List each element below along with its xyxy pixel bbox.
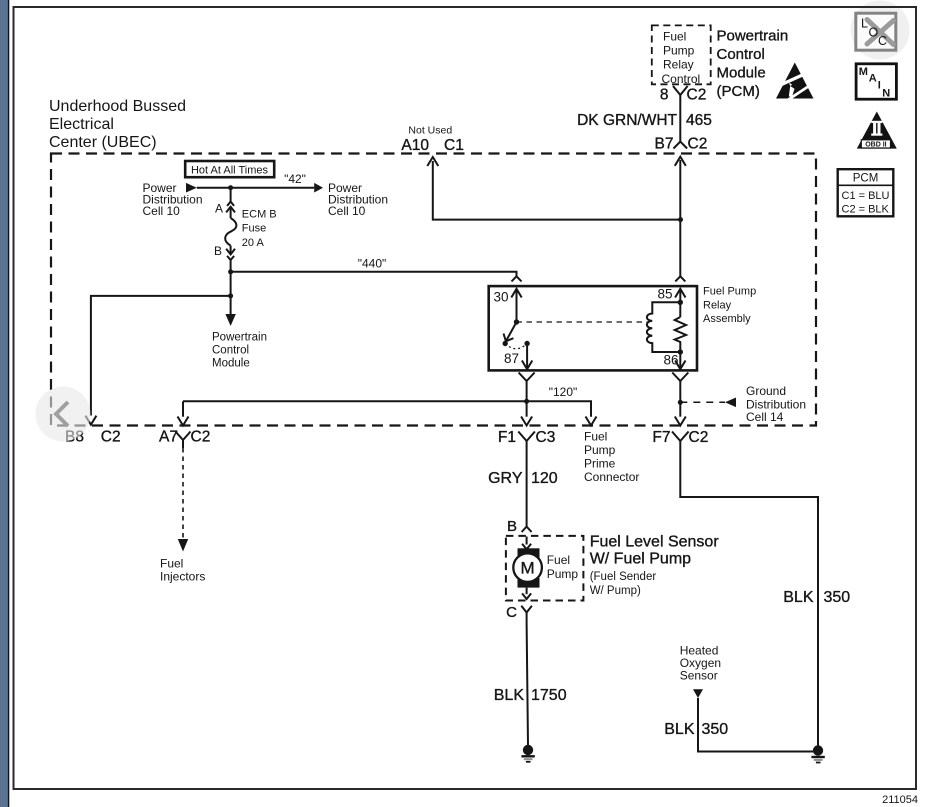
svg-text:120: 120 [531,470,558,487]
node A10/B7 junction [678,217,683,222]
svg-text:"120": "120" [549,385,578,399]
svg-text:OBD II: OBD II [865,142,886,149]
svg-text:M: M [859,66,868,78]
connector half B7 [679,135,681,142]
icon MAIN [856,64,896,100]
node hot feed junction [228,185,233,190]
svg-text:"42": "42" [284,172,306,186]
dashed actuation line to coil [517,321,649,323]
svg-text:Control: Control [212,345,249,357]
PCM dashed box Fuel Pump Relay Control [652,25,711,84]
wire branch to B8 [91,296,231,416]
svg-text:F7: F7 [652,429,670,446]
svg-text:Fuel: Fuel [584,430,607,444]
wire "120" prime branch [183,401,591,416]
svg-text:A: A [215,202,223,216]
ESD warning symbol [776,63,814,101]
svg-text:BLK: BLK [664,721,695,738]
coil bottom node [678,349,683,354]
wire BLK 1750 [527,623,528,746]
wire stub to PCM arrow [230,296,232,315]
switch contact node (blade end) [503,341,508,346]
arrow Ground Distribution (filled, left) [725,398,736,408]
nav chevron left [56,402,68,426]
svg-text:A7: A7 [159,429,178,446]
pin 30 arrow (open, up) [511,289,521,298]
svg-text:Hot At All Times: Hot At All Times [191,165,269,177]
svg-text:B: B [214,244,222,258]
svg-text:1750: 1750 [531,687,567,704]
svg-text:L: L [861,17,868,31]
arrow B7 into UBEC border (open, up) [675,157,686,166]
svg-text:N: N [882,88,890,100]
connector chevron into relay pin 85 [675,276,685,281]
svg-text:Underhood Bussed: Underhood Bussed [49,98,186,115]
svg-text:(Fuel Sender: (Fuel Sender [590,571,657,583]
svg-text:30: 30 [494,290,509,305]
svg-text:(PCM): (PCM) [717,83,760,100]
svg-text:Fuel Level Sensor: Fuel Level Sensor [590,534,720,551]
svg-text:W/ Fuel Pump: W/ Fuel Pump [590,551,691,568]
svg-text:85: 85 [658,287,673,302]
connector Y at pin 8 [673,86,688,95]
svg-text:C1: C1 [444,137,464,154]
svg-text:C2 = BLK: C2 = BLK [842,204,890,216]
arrow A7 into border (open, down) [178,417,189,426]
svg-text:Electrical: Electrical [49,116,114,133]
svg-text:Powertrain: Powertrain [717,28,789,45]
svg-text:C2: C2 [101,429,121,446]
svg-text:Fuel: Fuel [160,557,183,571]
svg-text:PCM: PCM [853,173,879,185]
svg-text:B7: B7 [655,136,674,153]
wire B7 down to relay pin 85 [679,160,681,276]
arrow into motor (open, down) [526,537,528,545]
svg-text:I: I [878,80,881,92]
svg-text:C: C [878,34,887,48]
svg-text:C2: C2 [689,429,709,446]
svg-text:C2: C2 [191,429,211,446]
svg-text:211054: 211054 [882,794,918,806]
svg-text:Fuel: Fuel [663,29,686,43]
wire GRY 120 [526,451,528,527]
svg-text:Center (UBEC): Center (UBEC) [49,134,157,151]
motor M (fuel pump) [518,548,540,558]
svg-text:Connector: Connector [584,470,639,484]
svg-text:Cell 10: Cell 10 [143,204,181,218]
dashed wire to Ground Distribution [680,401,725,403]
svg-text:Pump: Pump [547,567,579,581]
pin 87 contact node [524,341,529,346]
svg-text:Fuse: Fuse [242,223,266,235]
svg-text:O: O [869,26,879,40]
svg-text:Control: Control [662,72,701,86]
svg-text:20 A: 20 A [242,237,265,249]
connector Y at F7 [672,432,689,442]
arrow prime connector into border (open, down) [586,417,597,426]
svg-text:C2: C2 [687,87,707,104]
svg-text:Assembly: Assembly [703,313,751,325]
connector chevron B at pump [522,527,532,532]
wire A7 drop [182,401,184,416]
wire A10 to junction [433,161,681,220]
svg-text:Injectors: Injectors [160,570,205,584]
svg-text:465: 465 [686,112,712,129]
arrow B8 into border (open) [85,416,96,425]
wire junction to fuse [230,188,232,202]
fuse arrow down [230,246,232,255]
connector chevron A [227,202,234,206]
svg-text:Control: Control [717,46,765,63]
resistor zigzag (parallel element) [675,317,686,352]
switch blade with arrowhead [506,322,517,342]
svg-text:"440": "440" [358,257,387,271]
icon LOC (disabled) [856,13,896,50]
arrow to Power Distribution (right, filled) [314,183,323,193]
arrow to Powertrain Control Module (filled) [225,314,235,326]
pin 87 lead with arrow down [526,344,528,370]
connector Y at C [521,606,532,613]
svg-text:B: B [507,518,517,535]
svg-text:8: 8 [660,87,669,104]
connector chevron B [227,256,234,260]
arrow fuel injectors (filled, down) [178,539,188,552]
connector Y at F1 [518,432,535,442]
connector Y below relay pin 86 [672,373,688,382]
wire fuse output [230,260,232,296]
nav circle left (greyed control) [36,387,91,442]
wire F7 to BLK 350 [680,451,818,746]
inductor coil branch [647,302,680,352]
svg-text:350: 350 [702,721,729,738]
svg-text:M: M [521,559,535,578]
svg-text:Cell 10: Cell 10 [328,204,366,218]
heated O2 sensor terminal (filled triangle down) [693,689,703,698]
svg-text:86: 86 [663,353,678,368]
svg-text:Cell 14: Cell 14 [746,410,784,424]
svg-text:DK GRN/WHT: DK GRN/WHT [577,112,677,129]
connector Y at A7 [176,432,191,441]
arrow F7 into border (open, down) [675,417,686,426]
dashed wire to fuel injectors [182,448,184,540]
svg-text:Not Used: Not Used [408,125,452,137]
connector Y below relay pin 87 [519,373,535,382]
svg-text:A10: A10 [401,137,429,154]
connector chevron into relay pin 30 [512,276,522,281]
arrow out of motor (open, down) [526,588,528,595]
pin 86 lead with arrow down [679,352,681,369]
fuse F1 ECM B 20A (arrow up) [226,207,235,213]
svg-text:Relay: Relay [703,299,732,311]
fuse element wiggle [225,218,236,246]
arrow from Power Distribution (left, filled) [186,183,197,193]
svg-text:C1 = BLU: C1 = BLU [842,190,890,202]
svg-text:Module: Module [717,65,766,82]
svg-text:ECM B: ECM B [242,209,277,221]
svg-text:BLK: BLK [783,589,814,606]
svg-text:W/ Pump): W/ Pump) [590,585,641,597]
svg-text:C2: C2 [688,136,708,153]
node fuse output junction [228,269,233,274]
wire BLK 350 (bottom) [698,698,813,752]
UBEC dashed boundary box [51,154,816,426]
svg-text:350: 350 [824,589,851,606]
ground G (left) [521,745,534,762]
svg-text:Relay: Relay [663,58,694,72]
svg-text:87: 87 [504,351,519,366]
legend PCM connector colors [838,169,894,216]
wire "440" to relay pin 30 [231,272,517,277]
wire F1 drop [526,401,528,416]
svg-text:Pump: Pump [584,443,616,457]
switch pivot node [514,319,519,324]
svg-text:Ground: Ground [746,384,786,398]
svg-text:Fuel: Fuel [547,553,570,567]
svg-text:A: A [869,73,877,85]
dotted link blade to 87 [505,344,527,349]
svg-text:Pump: Pump [663,44,695,58]
node F1 junction [524,399,529,404]
svg-text:F1: F1 [498,429,516,446]
svg-text:Prime: Prime [584,457,616,471]
node B8 branch junction [228,293,233,298]
wire F7 drop [679,402,681,416]
wire 465 vertical [679,101,681,135]
arrow A10 into border (open, up) [427,157,438,166]
svg-text:C3: C3 [536,429,556,446]
Hot At All Times box [185,161,274,177]
svg-text:Module: Module [212,358,250,370]
svg-text:BLK: BLK [494,687,525,704]
pin 85 arrow (open, up) [675,289,685,298]
svg-text:Powertrain: Powertrain [212,332,267,344]
coil top node [678,300,683,305]
nav circle top-right (greyed control) [851,1,910,60]
arrow F1 into border (open, down) [521,417,532,426]
relay assembly box [489,286,697,370]
node F7 junction [678,400,683,405]
fuel pump dashed box [506,536,584,601]
ground G (right) [811,745,824,762]
left blue sidebar strip [0,0,8,807]
svg-text:C: C [506,604,517,621]
svg-text:Sensor: Sensor [680,669,718,683]
svg-text:Fuel Pump: Fuel Pump [703,286,756,298]
svg-text:GRY: GRY [488,470,523,487]
icon OBD II triangle [857,112,897,149]
wire hot feed horizontal [197,187,314,189]
